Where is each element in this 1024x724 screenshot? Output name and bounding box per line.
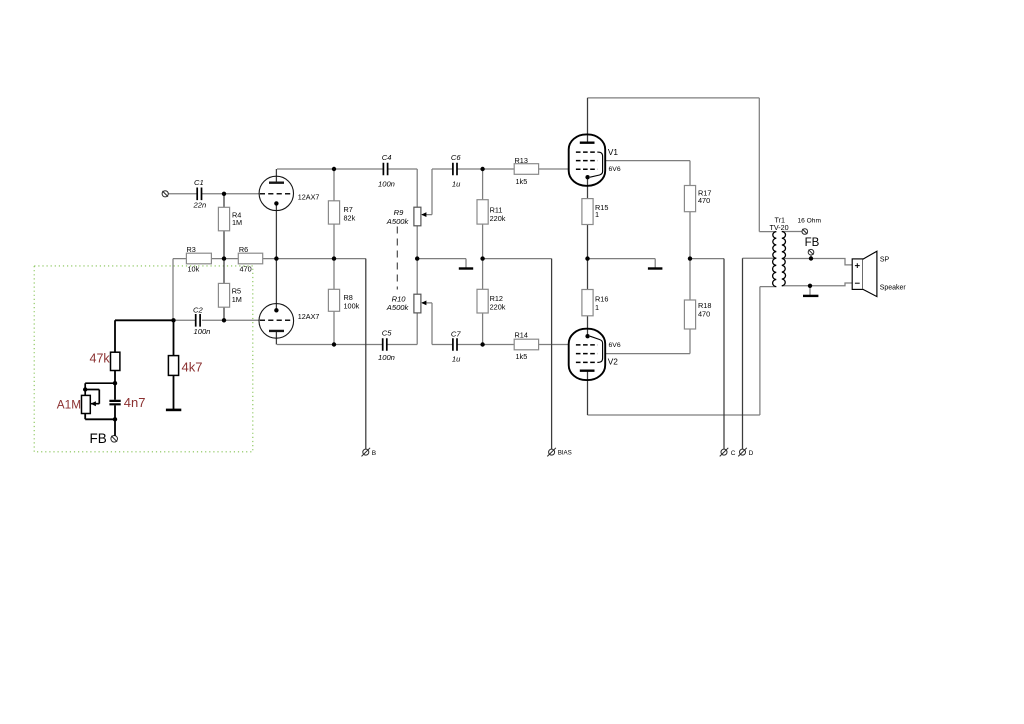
svg-text:V1: V1 [608,147,619,157]
svg-text:4n7: 4n7 [124,395,146,410]
svg-text:22n: 22n [193,201,207,210]
svg-text:12AX7: 12AX7 [298,192,320,201]
svg-text:6V6: 6V6 [609,342,621,349]
svg-text:A1M: A1M [57,398,81,412]
svg-text:220k: 220k [490,303,506,312]
svg-text:470: 470 [698,310,710,319]
svg-text:10k: 10k [188,265,200,274]
svg-text:B: B [372,450,376,457]
svg-text:C1: C1 [194,178,204,187]
svg-text:6V6: 6V6 [609,166,621,173]
svg-text:1: 1 [595,303,599,312]
svg-text:100n: 100n [194,327,211,336]
svg-text:1M: 1M [232,295,242,304]
svg-text:47k: 47k [90,352,111,366]
svg-text:R14: R14 [515,330,528,339]
svg-text:1M: 1M [232,218,242,227]
svg-text:V2: V2 [608,356,619,366]
svg-text:C7: C7 [451,330,461,339]
svg-text:470: 470 [698,196,710,205]
svg-text:C2: C2 [193,306,203,315]
svg-text:100n: 100n [378,179,395,188]
svg-text:16 Ohm: 16 Ohm [798,218,822,225]
svg-text:R13: R13 [515,156,528,165]
svg-text:220k: 220k [490,214,506,223]
svg-text:1k5: 1k5 [516,177,528,186]
svg-text:SP: SP [880,256,890,263]
svg-text:4k7: 4k7 [182,359,203,374]
svg-text:C4: C4 [382,153,392,162]
svg-text:1u: 1u [452,355,461,364]
svg-text:1: 1 [595,210,599,219]
svg-text:100k: 100k [344,301,360,310]
svg-text:FB: FB [805,237,820,249]
svg-text:FB: FB [90,431,107,446]
svg-text:1k5: 1k5 [516,352,528,361]
svg-text:100n: 100n [378,353,395,362]
svg-text:R6: R6 [239,245,248,254]
svg-text:R3: R3 [187,245,196,254]
svg-text:82k: 82k [344,213,356,222]
svg-text:BIAS: BIAS [558,450,572,457]
svg-text:1u: 1u [452,179,461,188]
svg-text:12AX7: 12AX7 [298,312,320,321]
svg-text:A500k: A500k [386,217,410,226]
svg-text:C6: C6 [451,153,461,162]
svg-text:A500k: A500k [386,303,410,312]
svg-text:470: 470 [240,265,252,274]
svg-text:D: D [749,450,754,457]
svg-text:Speaker: Speaker [880,284,907,291]
svg-text:TV-20: TV-20 [770,223,789,232]
svg-text:C: C [731,450,736,457]
svg-text:C5: C5 [382,329,392,338]
svg-text:R9: R9 [394,208,404,217]
